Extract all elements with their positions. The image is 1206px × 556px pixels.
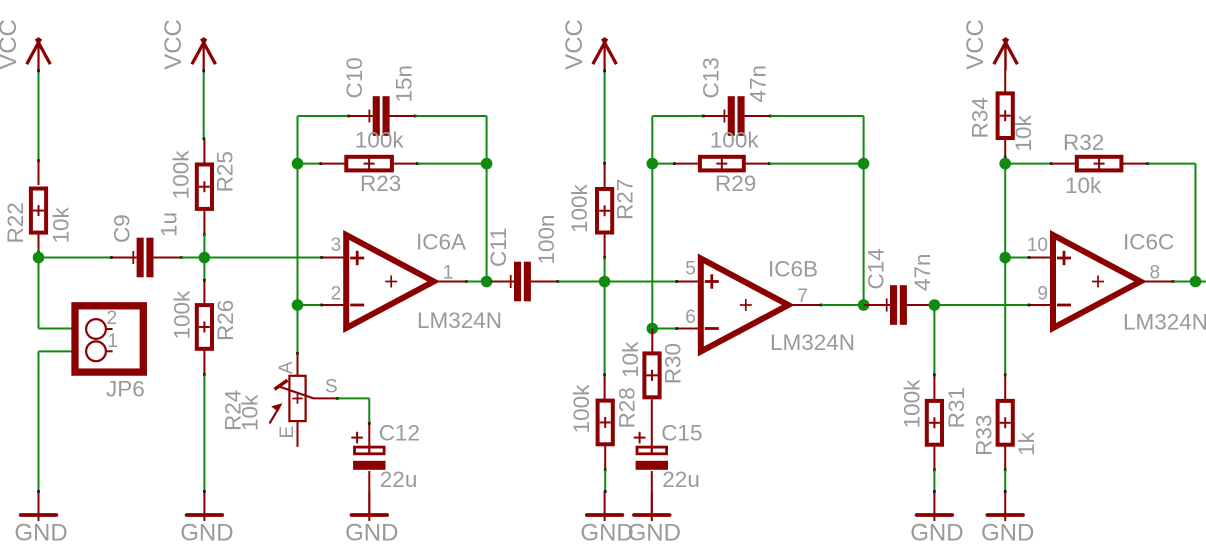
pin of R22 top	[38, 161, 40, 185]
svg-text:S: S	[325, 377, 338, 398]
junction node C	[599, 276, 611, 288]
svg-text:9: 9	[1037, 284, 1048, 305]
wire node pin10 down to R33	[1004, 258, 1007, 377]
resistor R22	[3, 189, 73, 244]
svg-text:100k: 100k	[899, 379, 924, 429]
junction node R29 right	[858, 158, 870, 170]
svg-text:GND: GND	[14, 520, 67, 547]
junction node pin10	[999, 252, 1011, 264]
op-amp IC6B	[685, 256, 855, 354]
svg-text:IC6A: IC6A	[416, 229, 466, 254]
pin 6 stub IC6B	[677, 328, 701, 330]
resistor R33	[971, 401, 1039, 456]
svg-text:1: 1	[107, 331, 118, 352]
wire out7 wire	[821, 304, 863, 306]
pin of R29 left	[674, 163, 698, 165]
pin 8 stub IC6C	[1140, 280, 1175, 283]
svg-text:100k: 100k	[710, 127, 760, 152]
pin of R28 bottom	[604, 446, 607, 472]
junction node D	[999, 158, 1011, 170]
wire C10 left wire	[298, 115, 351, 118]
pin of C14 left	[864, 304, 890, 306]
svg-text:2: 2	[107, 308, 118, 329]
ground GND #2	[180, 492, 233, 547]
svg-text:C9: C9	[109, 214, 134, 243]
wire feedback left vertical IC6B	[651, 116, 653, 329]
pin of R25 top	[203, 139, 205, 163]
pin of R32 left	[1051, 163, 1076, 165]
svg-text:R31: R31	[944, 387, 969, 428]
pin of C13 left	[703, 115, 728, 117]
resistor R34	[967, 93, 1036, 151]
svg-text:IC6C: IC6C	[1123, 229, 1174, 254]
svg-text:A: A	[276, 361, 297, 374]
pin of C11 left	[491, 281, 514, 283]
ground GND #6 (R31)	[910, 492, 963, 547]
wire R31 to GND#6	[933, 470, 936, 493]
trimmer R24	[221, 361, 338, 438]
wire out8 wire to edge	[1173, 281, 1206, 283]
wire VCC to R22	[37, 69, 40, 162]
pin of C13 right	[745, 115, 772, 118]
connector JP6	[75, 306, 145, 402]
svg-text:C15: C15	[661, 421, 702, 446]
svg-text:LM324N: LM324N	[770, 330, 855, 355]
svg-text:VCC: VCC	[561, 19, 588, 70]
wire R29 left wire	[652, 162, 676, 165]
pin of C12 bottom	[368, 471, 370, 515]
pin of R27 top	[604, 164, 606, 189]
wire R26 to GND#2	[203, 375, 206, 493]
svg-text:1k: 1k	[1014, 431, 1039, 456]
pin of R22 bottom	[37, 234, 40, 253]
svg-text:GND: GND	[910, 520, 963, 547]
pin 7 stub IC6B	[788, 304, 823, 307]
svg-text:10k: 10k	[1065, 173, 1102, 198]
pin of R23 right	[393, 162, 419, 165]
capacitor C15	[634, 421, 703, 493]
svg-text:GND: GND	[628, 520, 681, 547]
capacitor C11	[486, 214, 559, 301]
wire R27 to node C	[604, 258, 606, 282]
pin of C10 right	[390, 115, 417, 118]
svg-text:C13: C13	[699, 57, 724, 98]
svg-text:R32: R32	[1063, 130, 1104, 155]
pin of C9 left	[112, 257, 137, 259]
wire R29 right wire	[769, 163, 863, 165]
svg-text:10: 10	[1027, 235, 1048, 256]
pin of R30 top	[651, 329, 653, 353]
junction node out7/C14	[858, 299, 870, 311]
resistor R32	[1063, 130, 1121, 198]
pin of R31 top	[933, 375, 935, 399]
wire pin10 wire	[1005, 256, 1030, 259]
svg-text:3: 3	[331, 235, 342, 256]
pin of R33 bottom	[1004, 445, 1007, 471]
capacitor C13	[699, 57, 771, 136]
svg-text:100n: 100n	[534, 214, 559, 264]
wire R22 to node A	[38, 249, 40, 258]
pin 10 stub IC6C	[1030, 257, 1054, 259]
ground GND #3 (C12)	[345, 492, 398, 547]
wire node B to R26	[203, 258, 206, 282]
capacitor C9	[109, 212, 181, 277]
pin 9 stub IC6C	[1030, 304, 1054, 306]
wire JP6 pin1 to GND#1	[37, 350, 86, 493]
wire out1 wire	[467, 281, 491, 283]
pin of R24 top (A)	[297, 353, 299, 375]
svg-text:VCC: VCC	[160, 19, 187, 70]
svg-text:10k: 10k	[618, 341, 643, 378]
pin of R23 left	[321, 163, 345, 165]
wire feedback left vertical IC6A	[297, 116, 299, 305]
svg-text:1: 1	[443, 263, 454, 284]
svg-text:5: 5	[685, 259, 696, 280]
wire C13 left wire	[652, 115, 704, 118]
svg-text:R34: R34	[967, 97, 992, 138]
pin 5 stub IC6B	[677, 281, 701, 283]
wire R25 to node B	[203, 234, 205, 258]
svg-text:2: 2	[331, 284, 342, 305]
svg-text:47n: 47n	[910, 253, 935, 291]
svg-text:VCC: VCC	[0, 19, 22, 70]
wire pin2 wire	[298, 304, 324, 307]
resistor R28	[569, 384, 639, 444]
VCC#4 to R34 pin	[1004, 46, 1006, 93]
svg-text:C11: C11	[486, 227, 511, 267]
pin of R34 bottom	[1004, 139, 1007, 159]
pin of R28 top	[604, 375, 606, 400]
pin of C15 bottom	[651, 471, 653, 515]
pin of R26 bottom	[203, 350, 206, 376]
svg-text:100k: 100k	[169, 290, 194, 340]
svg-text:R33: R33	[971, 415, 996, 456]
pin of R30 bottom to C15	[651, 399, 653, 447]
junction node out8	[1190, 276, 1202, 288]
junction node R23 left	[292, 158, 304, 170]
svg-text:R23: R23	[360, 171, 401, 196]
svg-text:R30: R30	[661, 343, 686, 384]
wire R32 to output node	[1148, 164, 1196, 282]
wire S to C12	[338, 398, 371, 425]
pin of C14 right	[907, 304, 931, 306]
svg-text:R26: R26	[213, 300, 238, 341]
pin of R33 top	[1004, 375, 1006, 399]
svg-text:IC6B: IC6B	[768, 256, 818, 281]
wire VCC to R27	[603, 69, 606, 165]
pin 3 stub IC6A	[323, 257, 348, 259]
wire C9 to node B and pin 3	[181, 256, 323, 259]
capacitor C14	[864, 248, 936, 325]
svg-text:R28: R28	[614, 387, 639, 428]
svg-text:22u: 22u	[662, 467, 700, 492]
resistor R25	[169, 150, 238, 209]
power VCC #2	[160, 19, 216, 70]
ground GND #7 (R33)	[981, 492, 1034, 547]
svg-text:C12: C12	[379, 421, 420, 446]
resistor R26	[169, 290, 238, 349]
resistor R23	[346, 127, 404, 196]
wire node A to C9	[39, 256, 113, 259]
power VCC #3	[561, 19, 617, 70]
resistor R31	[899, 379, 969, 445]
ground GND #5 (C15)	[628, 492, 681, 547]
svg-text:VCC: VCC	[962, 19, 989, 70]
svg-text:6: 6	[685, 307, 696, 328]
pin of R24 bottom (E)	[297, 421, 299, 447]
svg-text:R29: R29	[715, 171, 756, 196]
svg-text:E: E	[277, 426, 298, 439]
svg-text:10k: 10k	[238, 394, 263, 431]
pin of C11 right	[531, 280, 559, 283]
svg-text:GND: GND	[981, 520, 1034, 547]
pin of R27 bottom	[603, 233, 606, 259]
resistor R29	[700, 127, 759, 196]
svg-text:C10: C10	[342, 57, 367, 98]
svg-text:10k: 10k	[1011, 114, 1036, 151]
ground GND #1	[14, 492, 67, 547]
svg-text:LM324N: LM324N	[1123, 310, 1206, 335]
capacitor C10	[342, 57, 417, 136]
wire R23 left wire	[298, 162, 323, 165]
junction node B	[199, 252, 211, 264]
svg-text:47n: 47n	[746, 65, 771, 103]
wire C10 right wire	[415, 116, 486, 282]
pin 1 stub IC6A	[433, 280, 468, 283]
wire C14 to pin9 IC6C	[934, 304, 1030, 307]
svg-text:JP6: JP6	[106, 377, 145, 402]
wire node D down to pin10 node	[1004, 164, 1006, 258]
svg-text:R25: R25	[213, 151, 238, 192]
svg-text:100k: 100k	[567, 183, 592, 233]
wire R28 to GND#4	[604, 470, 607, 493]
svg-text:R27: R27	[613, 179, 638, 220]
svg-text:100k: 100k	[355, 127, 405, 152]
svg-text:22u: 22u	[380, 467, 418, 492]
svg-text:15n: 15n	[392, 65, 417, 103]
junction node pin6 IC6B	[647, 323, 659, 335]
power VCC #4	[962, 19, 1018, 70]
wire pin2 to R24	[296, 305, 299, 355]
svg-text:GND: GND	[180, 520, 233, 547]
pin of R29 right	[745, 162, 771, 165]
wire R33 to GND#7	[1004, 470, 1007, 493]
pin of R26 top	[203, 280, 205, 305]
wire node C to R28	[603, 282, 606, 377]
op-amp IC6A	[331, 229, 502, 333]
wire R34 to node D	[1004, 158, 1006, 164]
pin of R32 right	[1123, 162, 1149, 165]
junction node R29 left	[647, 158, 659, 170]
junction node A	[33, 252, 45, 264]
svg-text:1u: 1u	[157, 212, 182, 237]
svg-text:100k: 100k	[169, 150, 194, 200]
capacitor C12	[351, 421, 420, 493]
svg-text:C14: C14	[864, 248, 889, 289]
resistor R30	[618, 341, 686, 397]
wire node D to R32	[1005, 162, 1053, 165]
wire R23 right wire	[417, 163, 486, 165]
wire pin6 wire	[652, 327, 678, 330]
resistor R27	[567, 179, 637, 233]
pin of C12 top	[368, 424, 370, 448]
svg-text:10k: 10k	[48, 206, 73, 243]
pin 2 stub IC6A	[323, 304, 348, 306]
junction node out1/C11	[481, 276, 493, 288]
svg-text:GND: GND	[580, 520, 633, 547]
svg-text:LM324N: LM324N	[417, 308, 502, 333]
wire C11 to pin5 IC6B	[558, 280, 678, 283]
pin of C9 right	[154, 256, 184, 259]
pin of C10 left	[349, 115, 373, 117]
wire node A down to JP6 pin2	[39, 258, 86, 330]
svg-text:7: 7	[797, 286, 808, 307]
svg-text:8: 8	[1150, 263, 1161, 284]
pin of R24 wiper (S)	[314, 397, 339, 400]
svg-text:100k: 100k	[569, 384, 594, 434]
ground GND #4	[580, 492, 633, 547]
power VCC #1	[0, 19, 50, 70]
pin of R25 bottom	[203, 210, 206, 236]
svg-text:R22: R22	[3, 202, 28, 243]
junction node C14/R31	[929, 299, 941, 311]
wire C13 right wire	[770, 116, 863, 305]
svg-text:GND: GND	[345, 520, 398, 547]
junction node R23 right	[481, 158, 493, 170]
wire node C14 down to R31	[933, 305, 936, 376]
wire VCC to R25	[202, 69, 205, 140]
op-amp IC6C	[1027, 229, 1206, 334]
pin of R31 bottom	[933, 446, 936, 472]
junction node pin2 IC6A	[292, 299, 304, 311]
